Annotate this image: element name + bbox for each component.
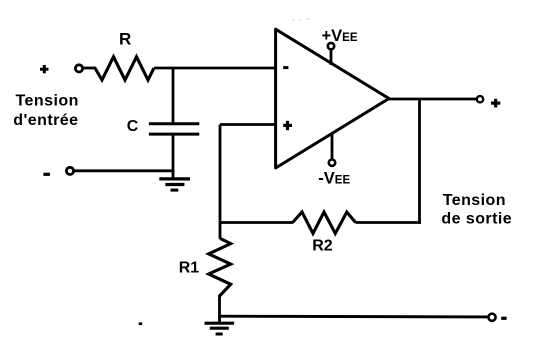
resistor R1 <box>209 238 231 296</box>
+VEE supply wire <box>330 49 333 65</box>
node plus input label <box>40 65 49 73</box>
node minus output label <box>501 317 506 320</box>
ground under capacitor <box>159 179 190 190</box>
wire noninverting input <box>220 123 277 126</box>
svg-text:R2: R2 <box>312 237 333 254</box>
op-amp minus sign <box>283 66 288 69</box>
-VEE supply wire <box>331 133 334 160</box>
wire node to capacitor <box>172 68 175 123</box>
+VEE terminal <box>328 43 334 49</box>
terminal input - <box>66 167 73 174</box>
capacitor C <box>149 124 199 134</box>
svg-text:d'entrée: d'entrée <box>13 112 78 129</box>
output wire <box>388 98 477 101</box>
node plus output label <box>491 99 500 108</box>
wire bottom to output minus <box>220 315 488 319</box>
wire capacitor to ground <box>172 135 175 180</box>
wire feedback right <box>356 221 421 224</box>
svg-text:C: C <box>127 118 139 135</box>
svg-text:Tension: Tension <box>443 192 506 209</box>
resistor R <box>95 57 154 80</box>
op-amp plus sign <box>283 121 292 130</box>
svg-text:R1: R1 <box>179 260 200 277</box>
wire from minus terminal <box>74 169 175 172</box>
wire <box>83 67 96 70</box>
stray dot artifact <box>139 322 143 325</box>
terminal input + <box>75 65 82 72</box>
-VEE terminal <box>329 160 335 166</box>
terminal output + <box>477 96 483 102</box>
wire to inverting input <box>154 67 277 70</box>
resistor R2 <box>293 212 356 234</box>
terminal output - <box>488 314 495 321</box>
wire node to R1/R2 junction <box>219 125 222 239</box>
wire feedback left <box>220 221 293 224</box>
svg-text:de sortie: de sortie <box>441 211 512 228</box>
svg-text:R: R <box>119 29 131 48</box>
wire output to feedback <box>418 99 421 224</box>
svg-text:Tension: Tension <box>16 92 79 109</box>
node minus input label <box>43 173 50 176</box>
ground under R1 <box>205 323 235 334</box>
op-amp U1 <box>276 29 389 168</box>
faint smudge artifact <box>292 18 310 21</box>
wire R1 to ground <box>218 295 221 322</box>
